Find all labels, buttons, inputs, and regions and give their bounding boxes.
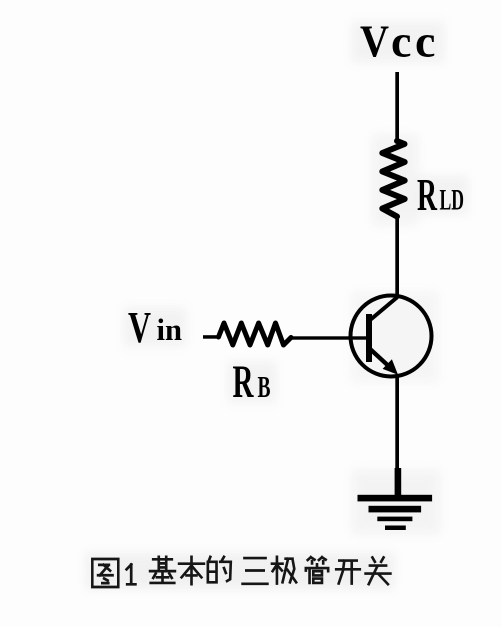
caption char 开 [336, 561, 360, 584]
caption 图1 基本的三极管开关 [92, 557, 390, 587]
svg-text:R: R [233, 356, 255, 408]
resistor RLD [382, 141, 404, 217]
caption char 的 [208, 557, 231, 582]
resistor RB [219, 323, 292, 345]
ground [358, 495, 433, 530]
label Vin [128, 303, 182, 352]
wire: Vin lead [203, 335, 219, 339]
svg-text:c: c [391, 16, 411, 67]
caption char 三 [243, 558, 268, 584]
svg-text:in: in [157, 312, 183, 347]
wire: Vcc to RLD [395, 72, 399, 141]
svg-text:V: V [128, 303, 151, 352]
wire: RB to base [290, 336, 366, 339]
transistor Q1 circle [351, 296, 432, 377]
wire: emitter to ground [395, 374, 402, 495]
transistor Q1 collector stroke [370, 297, 398, 321]
caption char 图 [92, 559, 118, 587]
label RLD [417, 169, 464, 220]
caption char 基 [150, 557, 175, 583]
caption char 关 [366, 557, 391, 584]
svg-text:LD: LD [440, 184, 465, 217]
caption char 本 [179, 557, 204, 584]
svg-text:c: c [415, 16, 435, 67]
caption char 管 [306, 557, 328, 583]
svg-text:V: V [360, 16, 389, 67]
caption char 1 [127, 565, 136, 585]
label Vcc [360, 16, 435, 67]
svg-text:R: R [417, 169, 437, 220]
transistor Q1 emitter stroke with arrow [370, 349, 399, 375]
caption char 极 [272, 557, 296, 584]
svg-text:B: B [258, 369, 271, 404]
wire: RLD to collector [395, 218, 399, 298]
label RB [233, 356, 271, 408]
transistor Q1 base bar [366, 314, 372, 362]
